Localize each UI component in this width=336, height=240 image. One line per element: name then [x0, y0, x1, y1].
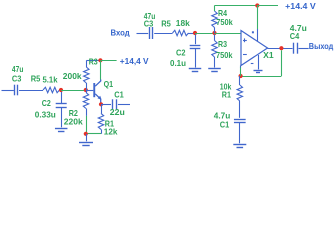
op-amp ground pin	[258, 55, 260, 69]
transistor Q1 base bar	[93, 83, 95, 97]
wire input to C3	[137, 33, 149, 35]
capacitor C3 (top, 47u)	[149, 27, 151, 39]
wire emitter down to R1	[101, 104, 103, 113]
op-amp U/X1 triangle	[241, 31, 268, 66]
capacitor C4 4.7u	[293, 43, 295, 54]
wire to +14.4V label	[257, 5, 278, 7]
resistor R1 10k (vertical)	[237, 85, 242, 101]
wire R3 bend to supply node	[87, 60, 101, 62]
capacitor C1 22u	[112, 99, 114, 109]
wire C3 to R5	[19, 90, 43, 92]
svg-text:12k: 12k	[104, 126, 118, 136]
node junction emitter	[99, 102, 103, 106]
svg-text:C1: C1	[220, 119, 230, 129]
wire node to node (green net)	[195, 33, 215, 35]
resistor R2 220k (vertical)	[83, 93, 88, 109]
svg-text:C2: C2	[176, 48, 186, 58]
wire C2 to ground	[195, 48, 197, 67]
wire input left edge	[2, 90, 14, 92]
wire R4 to supply rail (green)	[215, 5, 258, 7]
wire supply rail (left, green)	[100, 60, 116, 62]
ground below C1	[233, 144, 246, 146]
resistor R5 18k	[173, 30, 189, 35]
op-amp +input mark	[243, 40, 247, 42]
wire R2 bottom lead	[86, 109, 88, 116]
svg-text:R3: R3	[89, 56, 98, 66]
svg-text:0.1u: 0.1u	[170, 58, 186, 68]
wire C1 to ground	[239, 123, 241, 144]
resistor R1 12k (vertical)	[98, 113, 103, 129]
svg-text:+14.4 V: +14.4 V	[285, 1, 316, 11]
wire collector up (green)	[100, 61, 102, 80]
svg-text:47u: 47u	[12, 64, 24, 74]
op-amp V+ pin	[257, 29, 259, 41]
wire C2 to ground (left)	[61, 107, 63, 127]
ground below C2	[189, 68, 202, 70]
capacitor C2 0.1u	[190, 45, 201, 47]
svg-text:C3: C3	[12, 74, 22, 84]
transistor Q1 emitter with arrow	[95, 94, 101, 104]
wire feedback up to -input	[240, 67, 242, 76]
wire R5 to node	[59, 90, 62, 92]
wire node down to C2 (left)	[61, 92, 63, 103]
resistor R3 750k (vertical)	[212, 41, 217, 58]
svg-text:C4: C4	[290, 31, 300, 41]
ground below C2 (left)	[55, 128, 67, 130]
node junction base	[84, 88, 88, 92]
wire R3 to base node	[86, 83, 88, 90]
node junction R5/C2 (left)	[59, 88, 63, 92]
svg-text:5.1k: 5.1k	[43, 74, 58, 84]
svg-text:18k: 18k	[176, 18, 190, 28]
node junction ground (left)	[84, 132, 88, 136]
capacitor C2 0.33u	[56, 103, 67, 105]
svg-text:R5: R5	[161, 18, 171, 28]
wire R3 to ground	[214, 57, 216, 68]
svg-text:R3: R3	[218, 39, 227, 49]
wire R4 top lead	[214, 6, 216, 12]
capacitor C1 4.7u	[234, 119, 246, 121]
wire op-amp output	[268, 48, 293, 50]
wire base node down to R2	[86, 90, 88, 93]
svg-text:750k: 750k	[216, 17, 233, 27]
ground below op-amp	[254, 70, 263, 72]
node feedback junction	[239, 74, 243, 78]
svg-text:+14,4 V: +14,4 V	[120, 56, 149, 66]
wire to Q1 base	[86, 90, 94, 92]
wire R5 to node	[189, 33, 194, 35]
wire R1 to C1	[239, 101, 241, 118]
op-amp V- pin marker	[251, 63, 254, 65]
svg-text:Q1: Q1	[104, 79, 114, 89]
svg-text:Вход: Вход	[111, 28, 131, 38]
svg-text:22u: 22u	[110, 107, 125, 117]
wire node up to R4	[214, 28, 216, 34]
svg-text:C1: C1	[114, 89, 124, 99]
op-amp -input mark	[243, 54, 247, 56]
wire C4 to output	[299, 48, 309, 50]
wire to ground (left stage)	[86, 134, 88, 142]
svg-text:200k: 200k	[63, 71, 82, 81]
svg-text:R5: R5	[31, 74, 41, 84]
node junction R5/C2	[193, 31, 197, 35]
wire V+ down (green)	[257, 6, 259, 30]
node junction supply/V+ pin	[255, 3, 259, 7]
resistor R3 200k (vertical)	[84, 67, 89, 83]
svg-text:750k: 750k	[216, 50, 233, 60]
wire feedback down (green)	[281, 50, 283, 76]
wire node to base node (green)	[61, 90, 86, 92]
resistor R4 750k (vertical)	[212, 11, 217, 28]
node junction R3/R4	[212, 31, 216, 35]
wire feedback bottom (green)	[241, 76, 282, 78]
node junction supply (left)	[98, 58, 102, 62]
node output junction	[279, 46, 283, 50]
wire node to op-amp +in	[215, 33, 242, 35]
svg-text:220k: 220k	[64, 116, 83, 126]
transistor Q1 collector	[95, 80, 101, 87]
svg-text:0.33u: 0.33u	[35, 110, 56, 120]
svg-text:X1: X1	[263, 50, 274, 60]
svg-text:C3: C3	[144, 18, 154, 28]
ground below R3	[208, 68, 221, 70]
svg-text:C2: C2	[42, 98, 51, 108]
svg-text:R1: R1	[222, 89, 232, 99]
wire C1 output (open end)	[118, 104, 130, 106]
wire node down to R1	[239, 76, 241, 85]
ground below R2/R1	[79, 142, 93, 144]
wire node down to C2	[195, 35, 197, 45]
capacitor C3 (left, 47u)	[14, 85, 16, 96]
op-amp V+ pin marker	[252, 31, 254, 33]
wire R3 top lead	[86, 60, 88, 67]
wire node down to R3	[214, 35, 216, 41]
svg-text:Выход: Выход	[309, 41, 334, 51]
wire C3 to R5	[154, 33, 172, 35]
wire R1 bend to ground node	[101, 129, 103, 133]
resistor R5 5.1k	[43, 87, 60, 92]
wire emitter to C1	[101, 104, 111, 106]
